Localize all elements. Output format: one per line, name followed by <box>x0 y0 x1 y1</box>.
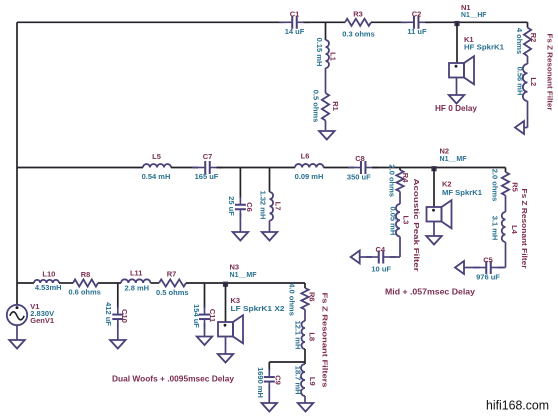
svg-text:0.5 ohms: 0.5 ohms <box>156 288 189 297</box>
svg-text:0.54 mH: 0.54 mH <box>142 172 171 181</box>
svg-text:N1__MF: N1__MF <box>230 270 257 279</box>
svg-text:Fs Z Resonant Filter: Fs Z Resonant Filter <box>520 189 527 269</box>
svg-text:R3: R3 <box>353 9 363 18</box>
svg-text:C11: C11 <box>208 309 217 322</box>
svg-text:L9: L9 <box>308 377 317 386</box>
svg-text:3.1 mH: 3.1 mH <box>491 216 500 241</box>
svg-text:976 uF: 976 uF <box>476 273 500 282</box>
svg-text:14 uF: 14 uF <box>285 27 305 36</box>
svg-text:R4: R4 <box>401 173 410 183</box>
svg-text:2.0 ohms: 2.0 ohms <box>491 169 500 202</box>
svg-text:C8: C8 <box>355 154 365 163</box>
svg-text:2.0 ohms: 2.0 ohms <box>388 164 397 197</box>
svg-text:0.56 mH: 0.56 mH <box>516 67 525 96</box>
svg-text:1.32 mH: 1.32 mH <box>259 191 268 220</box>
svg-text:165 uF: 165 uF <box>195 172 219 181</box>
svg-text:L6: L6 <box>301 152 310 161</box>
svg-text:25 uF: 25 uF <box>227 196 236 216</box>
svg-text:GenV1: GenV1 <box>30 316 54 325</box>
svg-text:L2: L2 <box>529 77 538 86</box>
svg-text:Fs Z Resonant Filter: Fs Z Resonant Filter <box>545 34 552 111</box>
svg-text:N1__HF: N1__HF <box>461 10 487 19</box>
svg-text:0.15 mH: 0.15 mH <box>315 38 324 67</box>
svg-text:0.09 mH: 0.09 mH <box>295 172 324 181</box>
svg-text:0.3 ohms: 0.3 ohms <box>342 29 375 38</box>
svg-text:0.5 ohms: 0.5 ohms <box>312 90 321 123</box>
svg-text:L1: L1 <box>329 52 338 61</box>
svg-text:C10: C10 <box>120 309 129 323</box>
svg-text:C1: C1 <box>290 9 300 18</box>
svg-text:C5: C5 <box>483 256 493 265</box>
svg-text:18.7 mH: 18.7 mH <box>293 366 302 395</box>
svg-text:N1__MF: N1__MF <box>440 154 467 163</box>
svg-text:350 uF: 350 uF <box>347 173 371 182</box>
svg-text:L7: L7 <box>273 202 282 211</box>
svg-text:L11: L11 <box>130 269 143 278</box>
svg-text:C6: C6 <box>245 202 254 212</box>
svg-text:C7: C7 <box>203 152 213 161</box>
svg-text:11 uF: 11 uF <box>407 27 427 36</box>
svg-text:Dual Woofs + .0095msec Delay: Dual Woofs + .0095msec Delay <box>112 374 234 384</box>
svg-text:LF SpkrK1 X2: LF SpkrK1 X2 <box>231 304 285 313</box>
svg-text:L3: L3 <box>401 216 410 225</box>
svg-text:C2: C2 <box>412 9 422 18</box>
svg-text:0.6 ohms: 0.6 ohms <box>68 288 101 297</box>
svg-text:R1: R1 <box>331 101 340 111</box>
svg-text:4 ohms: 4 ohms <box>515 28 524 54</box>
svg-text:HF 0 Delay: HF 0 Delay <box>435 103 477 113</box>
svg-text:Acoustic Peak Filter: Acoustic Peak Filter <box>412 179 421 272</box>
svg-text:Fs Z Resonant Filters: Fs Z Resonant Filters <box>321 293 328 388</box>
svg-text:L8: L8 <box>308 332 317 341</box>
svg-text:154 uF: 154 uF <box>192 304 201 328</box>
svg-text:L4: L4 <box>510 225 519 235</box>
svg-text:4.0 ohms: 4.0 ohms <box>288 283 297 316</box>
svg-text:R7: R7 <box>167 270 177 279</box>
svg-text:R5: R5 <box>511 182 520 192</box>
svg-text:MF SpkrK1: MF SpkrK1 <box>442 188 482 197</box>
svg-text:C4: C4 <box>376 245 386 254</box>
svg-text:12.1 mH: 12.1 mH <box>293 321 302 350</box>
svg-text:HF SpkrK1: HF SpkrK1 <box>464 43 504 52</box>
svg-text:R8: R8 <box>81 270 91 279</box>
svg-text:L5: L5 <box>152 152 161 161</box>
svg-text:0.05 mH: 0.05 mH <box>389 207 398 236</box>
svg-text:Mid + .057msec Delay: Mid + .057msec Delay <box>385 287 475 297</box>
svg-text:412 uF: 412 uF <box>104 302 113 326</box>
svg-text:1690 mH: 1690 mH <box>256 367 265 398</box>
svg-text:10 uF: 10 uF <box>371 265 391 274</box>
svg-text:hifi168.com: hifi168.com <box>486 397 549 412</box>
svg-text:R2: R2 <box>529 33 538 43</box>
svg-text:R6: R6 <box>308 292 317 302</box>
svg-text:4.53mH: 4.53mH <box>35 283 62 292</box>
svg-text:C9: C9 <box>274 375 283 385</box>
svg-text:L10: L10 <box>42 270 55 279</box>
svg-text:2.8 mH: 2.8 mH <box>124 283 149 292</box>
